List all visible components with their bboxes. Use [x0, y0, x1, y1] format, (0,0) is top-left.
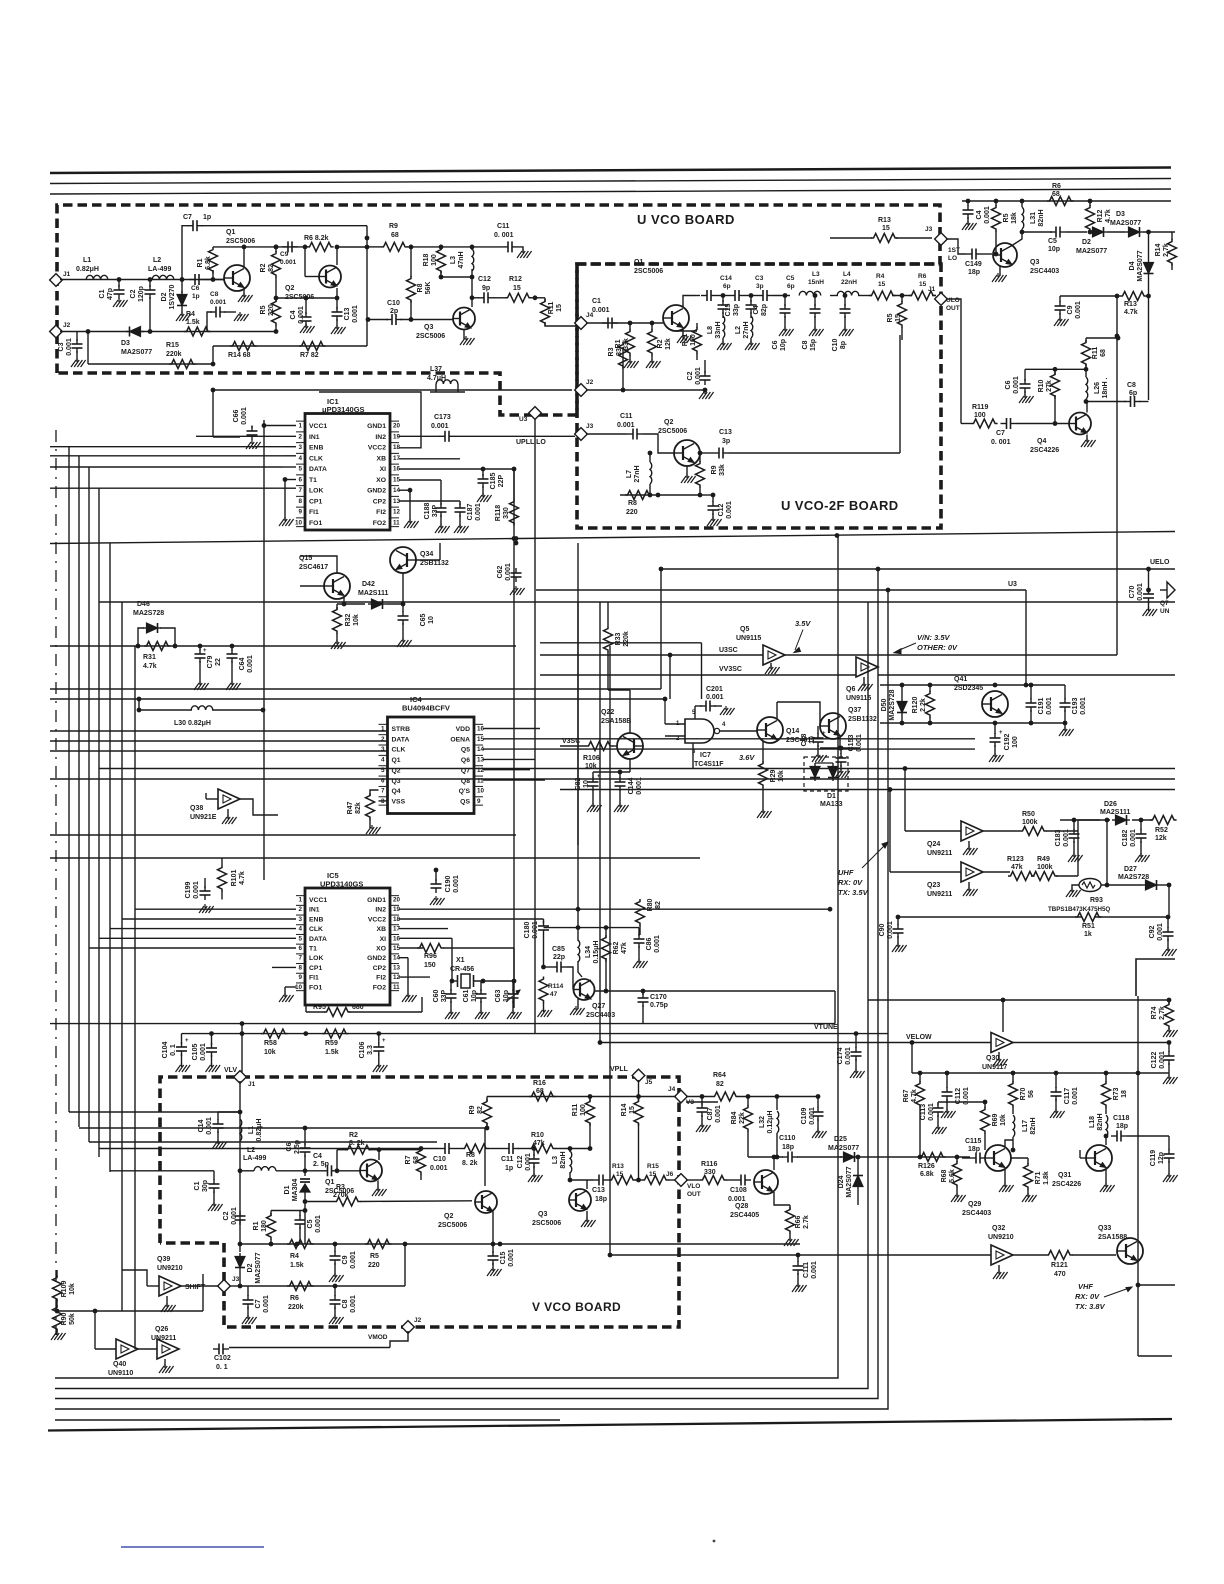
wire IC1 pin2: [196, 435, 296, 437]
wire R72 to Q31: [1079, 1150, 1081, 1158]
wire V top row: [487, 1096, 676, 1098]
capacitor C104 0.1: [181, 1034, 183, 1044]
svg-text:FI1: FI1: [309, 509, 319, 516]
svg-text:2SC4403: 2SC4403: [586, 1012, 615, 1019]
svg-text:0.001: 0.001: [532, 921, 539, 939]
svg-text:STRB: STRB: [392, 726, 411, 733]
NAND gate IC7 TC4S11F: [685, 719, 714, 743]
svg-text:R16: R16: [533, 1080, 546, 1087]
svg-text:82: 82: [716, 1081, 724, 1088]
wire bus row L: [50, 778, 1175, 780]
wire bottom border line: [48, 1419, 1172, 1431]
svg-text:0. 1: 0. 1: [170, 1044, 177, 1056]
svg-text:9: 9: [298, 509, 302, 516]
svg-text:82nH: 82nH: [1038, 209, 1045, 226]
buffer Q24 UN9211: [961, 821, 983, 841]
capacitor C9 0.001 right: [1060, 295, 1117, 297]
diode D1 MA304 V: [304, 1171, 306, 1176]
connector J2 left: [50, 325, 63, 338]
wire bus vert 2: [78, 456, 80, 1127]
svg-text:R101: R101: [231, 870, 238, 887]
svg-text:47nH: 47nH: [458, 251, 465, 268]
svg-text:47k: 47k: [621, 942, 628, 954]
svg-text:100: 100: [580, 1104, 587, 1116]
ground Q27: [577, 999, 579, 1009]
resistor R8 8.2k V: [462, 1144, 489, 1153]
svg-text:7: 7: [298, 955, 302, 962]
svg-text:R2: R2: [260, 263, 267, 272]
svg-text:C108: C108: [730, 1187, 747, 1194]
svg-text:15: 15: [882, 225, 890, 232]
svg-text:Q5: Q5: [740, 626, 749, 633]
svg-text:LOK: LOK: [309, 955, 323, 962]
svg-text:10p: 10p: [503, 990, 510, 1002]
svg-text:XI: XI: [380, 936, 387, 943]
wire mid vert x600: [599, 602, 601, 1043]
svg-text:C9: C9: [280, 251, 289, 258]
svg-text:Q3: Q3: [392, 778, 401, 785]
transistor Q3 2SC5006: [453, 308, 475, 330]
svg-text:56: 56: [1028, 1090, 1035, 1098]
svg-text:82nH: 82nH: [1097, 1113, 1104, 1130]
svg-text:GND2: GND2: [367, 488, 386, 495]
capacitor C3 3p: [729, 295, 735, 297]
connector U3 diamond: [529, 407, 542, 420]
capacitor C5 10p: [1050, 231, 1056, 233]
svg-text:10p: 10p: [471, 990, 478, 1002]
svg-text:0.001: 0.001: [350, 1251, 357, 1269]
capacitor C12 0.001 2F: [712, 495, 714, 502]
wire bus vert 4: [98, 488, 100, 1157]
svg-text:12p: 12p: [1158, 1152, 1165, 1164]
svg-text:Q39: Q39: [157, 1256, 170, 1263]
svg-text:1p: 1p: [505, 1165, 513, 1172]
capacitor C106 3.3: [378, 1034, 380, 1044]
transistor Q31 2SC4226: [1086, 1145, 1112, 1171]
wire feedback down: [366, 226, 368, 346]
capacitor C112 0.001: [946, 1073, 948, 1088]
svg-text:0.001: 0.001: [726, 501, 733, 519]
svg-text:33: 33: [616, 348, 623, 356]
svg-text:C3: C3: [58, 342, 65, 351]
svg-text:3: 3: [298, 444, 302, 451]
svg-text:4.7k: 4.7k: [1124, 309, 1138, 316]
svg-text:R10: R10: [531, 1132, 544, 1139]
svg-text:C193: C193: [1072, 698, 1079, 715]
svg-text:1k: 1k: [1084, 931, 1092, 938]
svg-text:UELO: UELO: [1150, 559, 1170, 566]
svg-text:15: 15: [513, 285, 521, 292]
svg-text:0.001: 0.001: [66, 338, 73, 356]
svg-text:22: 22: [215, 658, 222, 666]
svg-text:J2: J2: [414, 1317, 422, 1324]
wire Q39 output: [181, 1285, 219, 1287]
svg-text:0.12μH: 0.12μH: [767, 1111, 774, 1134]
svg-text:10p: 10p: [1048, 246, 1060, 253]
resistor R6 220k V: [287, 1282, 314, 1291]
svg-text:82p: 82p: [761, 304, 768, 316]
svg-text:C85: C85: [552, 946, 565, 953]
svg-text:XB: XB: [377, 455, 387, 462]
svg-text:C14: C14: [720, 275, 732, 282]
svg-text:Q29: Q29: [968, 1201, 981, 1208]
wire Q23 output: [983, 871, 1010, 873]
svg-text:0.001: 0.001: [1157, 923, 1164, 941]
wire Q38 input: [206, 798, 218, 800]
svg-text:10p: 10p: [780, 339, 787, 351]
svg-text:R3: R3: [336, 1184, 345, 1191]
wire bus row F (R31 row): [50, 645, 516, 647]
svg-text:R70: R70: [1020, 1087, 1027, 1100]
svg-text:100: 100: [431, 254, 438, 266]
wire bus row E: [50, 532, 1175, 544]
svg-text:C191: C191: [1038, 698, 1045, 715]
svg-text:L2: L2: [153, 257, 161, 264]
svg-text:27nH: 27nH: [743, 321, 750, 338]
wire IC5 pin19 IN2: [399, 908, 830, 910]
ground Q29: [1004, 1169, 1006, 1186]
cut buffer Q7x right edge: [1160, 589, 1167, 591]
capacitor C109 0.001: [817, 1097, 819, 1109]
wire to Q2 base: [643, 434, 674, 453]
svg-text:0.001: 0.001: [350, 1295, 357, 1313]
svg-text:J4: J4: [668, 1086, 676, 1093]
diode D3 MA2S077: [1129, 227, 1140, 237]
svg-text:15: 15: [616, 1171, 624, 1178]
svg-text:0.001: 0.001: [206, 1117, 213, 1135]
inductor L31 82nH: [1021, 201, 1023, 207]
wire Q23 input: [890, 871, 961, 873]
svg-text:0.001: 0.001: [1130, 829, 1137, 847]
blue underline bottom: [121, 1546, 264, 1548]
resistor R7 68 V: [417, 1148, 426, 1175]
svg-text:C11: C11: [501, 1156, 514, 1163]
svg-text:VSS: VSS: [392, 798, 406, 805]
svg-text:0.001: 0.001: [1080, 697, 1087, 715]
svg-text:C119: C119: [1150, 1150, 1157, 1166]
svg-text:15p: 15p: [810, 339, 817, 351]
wire IC5 pin15 XO: [399, 947, 423, 949]
svg-text:L37: L37: [430, 366, 442, 373]
inductor L18 82nH: [1106, 1115, 1108, 1137]
svg-text:3: 3: [298, 916, 302, 923]
wire Q27 out row: [594, 990, 835, 992]
svg-text:100: 100: [1012, 736, 1019, 748]
svg-text:R74: R74: [1151, 1006, 1158, 1019]
svg-text:L8: L8: [707, 326, 714, 334]
wire Q40-Q26: [138, 1348, 157, 1350]
svg-text:1p: 1p: [203, 214, 211, 221]
svg-text:UN9210: UN9210: [157, 1265, 183, 1272]
svg-text:D27: D27: [1124, 866, 1137, 873]
wire x1169 vert: [1168, 885, 1170, 917]
svg-text:220: 220: [626, 509, 638, 516]
wire IC1 top loop: [319, 392, 421, 448]
capacitor C117 0.001: [1055, 1073, 1057, 1088]
svg-text:0.001: 0.001: [1072, 1087, 1079, 1105]
resistor R5 18k: [995, 201, 997, 206]
capacitor C6 10p 2F: [784, 296, 786, 307]
svg-text:220k: 220k: [623, 631, 630, 647]
svg-text:4: 4: [722, 722, 726, 728]
wire U3 row: [536, 589, 1026, 591]
resistor R14 2.7k right: [1171, 232, 1173, 240]
capacitor C4 0.001: [305, 298, 307, 314]
svg-text:0.001: 0.001: [315, 1215, 322, 1233]
capacitor C182 0.001: [1140, 820, 1142, 830]
svg-text:R2: R2: [349, 1132, 358, 1139]
capacitor C201 0.001: [694, 706, 696, 719]
svg-text:μPD3140GS: μPD3140GS: [322, 405, 365, 414]
resistor R10 47k V: [529, 1144, 556, 1153]
svg-text:0.001: 0.001: [352, 305, 359, 323]
svg-text:R4: R4: [290, 1253, 299, 1260]
svg-text:R109: R109: [61, 1281, 68, 1298]
svg-text:J5: J5: [645, 1079, 653, 1086]
svg-text:C201: C201: [706, 686, 723, 693]
svg-text:+: +: [597, 774, 601, 780]
svg-text:C5: C5: [307, 1219, 314, 1228]
wire row 1033.6: [182, 1033, 889, 1035]
capacitor C190 0.001: [435, 879, 437, 884]
svg-text:L1: L1: [83, 257, 91, 264]
svg-text:10: 10: [428, 616, 435, 624]
wire Q14 collector: [776, 702, 778, 719]
svg-text:15nH: 15nH: [808, 279, 824, 286]
svg-text:5.6k: 5.6k: [949, 1169, 956, 1183]
svg-text:R5: R5: [1003, 213, 1010, 222]
capacitor C11 0.001 2F: [627, 433, 633, 435]
svg-text:0.001: 0.001: [811, 1261, 818, 1279]
wire bus row I (IC4 STRB): [50, 730, 387, 732]
wire IC5 pin18: [399, 918, 544, 920]
transistor Q27 2SC4403: [574, 979, 595, 1000]
svg-text:R95: R95: [313, 1004, 326, 1011]
wire long row 602: [99, 601, 1175, 603]
wire D27 row: [1101, 884, 1142, 886]
svg-text:D3: D3: [1116, 211, 1125, 218]
wire wrap bus 2: [55, 602, 868, 1389]
svg-text:C144: C144: [628, 778, 635, 795]
svg-text:R5: R5: [370, 1253, 379, 1260]
capacitor C113 0.001: [946, 1101, 948, 1103]
connector J3 2F: [575, 428, 588, 441]
inductor L1: [86, 275, 108, 279]
wire IC5 pin16 XI: [399, 937, 452, 939]
svg-text:18p: 18p: [968, 269, 980, 276]
svg-text:FO2: FO2: [373, 984, 386, 991]
svg-text:Q27: Q27: [592, 1003, 605, 1010]
svg-text:R9: R9: [711, 465, 718, 474]
svg-text:VV3SC: VV3SC: [719, 666, 742, 673]
svg-text:0.001: 0.001: [280, 259, 297, 266]
capacitor C70 0.001: [1148, 569, 1150, 590]
svg-text:UN9210: UN9210: [988, 1234, 1014, 1241]
transistor Q41 2SD2345: [982, 691, 1008, 717]
svg-text:J3: J3: [925, 226, 933, 233]
wire Q30 rail: [912, 1072, 1169, 1074]
capacitor C12 9p: [472, 297, 479, 299]
transistor Q3 V 2SC5006: [569, 1189, 591, 1211]
svg-text:82nH: 82nH: [560, 1151, 567, 1168]
svg-text:Q1: Q1: [634, 259, 643, 266]
svg-text:C185: C185: [490, 473, 497, 490]
svg-text:IC7: IC7: [700, 752, 711, 759]
svg-text:4: 4: [298, 455, 302, 462]
svg-text:R68: R68: [941, 1169, 948, 1182]
svg-text:L2: L2: [247, 1147, 255, 1154]
wire R11 top: [1086, 337, 1118, 339]
svg-text:Q3: Q3: [538, 1211, 547, 1218]
svg-text:R14: R14: [621, 1103, 628, 1116]
svg-text:Q4: Q4: [392, 788, 401, 795]
resistor R95 680: [306, 1011, 325, 1013]
svg-text:C8: C8: [802, 340, 809, 349]
ground Q2 2F emitter: [686, 466, 688, 477]
capacitor C4 0.001 right: [967, 201, 969, 206]
svg-text:UN: UN: [1160, 608, 1170, 615]
svg-text:R116: R116: [701, 1161, 717, 1168]
svg-text:2SC5006: 2SC5006: [438, 1222, 467, 1229]
svg-text:2p: 2p: [390, 308, 398, 315]
wire Q22 collector: [629, 759, 631, 772]
svg-text:3: 3: [381, 746, 385, 753]
wire bus row H: [50, 698, 665, 700]
svg-text:IN1: IN1: [309, 907, 320, 914]
svg-text:MA2S728: MA2S728: [1118, 874, 1149, 881]
svg-text:4.7μH: 4.7μH: [427, 375, 446, 382]
svg-text:J2: J2: [586, 379, 594, 386]
capacitor C199 0.001: [204, 886, 206, 891]
svg-text:Q1: Q1: [392, 757, 401, 764]
svg-text:R71: R71: [1035, 1171, 1042, 1184]
wire SHIFT row: [228, 1285, 240, 1287]
diode D1 MA133 pair: [804, 757, 848, 791]
wire V out row: [570, 1179, 593, 1181]
wire Q1 collector row: [213, 246, 306, 248]
svg-text:XI: XI: [380, 466, 387, 473]
wire J4 row: [686, 1101, 718, 1103]
svg-text:L3: L3: [812, 271, 820, 278]
svg-text:C182: C182: [1122, 830, 1129, 847]
svg-text:D25: D25: [834, 1136, 847, 1143]
svg-text:C199: C199: [185, 882, 192, 899]
svg-text:C12: C12: [517, 1155, 524, 1168]
box cut right edge: [1136, 959, 1175, 996]
svg-text:2SC5006: 2SC5006: [634, 268, 663, 275]
svg-text:D26: D26: [1104, 801, 1117, 808]
capacitor C192 100: [994, 723, 996, 734]
svg-text:IN2: IN2: [375, 434, 386, 441]
svg-text:1.5k: 1.5k: [186, 319, 200, 326]
svg-text:82k: 82k: [355, 802, 362, 814]
capacitor C122 0.001: [1168, 1043, 1170, 1053]
svg-text:MA2S077: MA2S077: [1137, 250, 1144, 281]
connector J4 2F: [575, 317, 588, 330]
wire V bottom rail: [240, 1243, 800, 1245]
ground C193: [1064, 723, 1066, 730]
diode D4 MA2S077: [1148, 232, 1150, 259]
svg-text:68: 68: [413, 1156, 420, 1164]
transistor Q29 2SC4403: [985, 1145, 1011, 1171]
svg-text:R31: R31: [143, 654, 156, 661]
ground Q1 emitter: [243, 288, 245, 296]
svg-text:J6: J6: [666, 1171, 674, 1178]
svg-text:D1: D1: [284, 1185, 291, 1194]
svg-text:C183: C183: [1055, 830, 1062, 847]
svg-text:Q41: Q41: [954, 676, 967, 683]
wire Q1 2F collector: [683, 296, 695, 308]
transistor Q4 2SC4226: [1069, 413, 1091, 435]
svg-text:1SV270: 1SV270: [169, 284, 176, 309]
svg-text:20: 20: [393, 897, 401, 904]
svg-text:XB: XB: [377, 926, 387, 933]
svg-text:J2: J2: [63, 322, 71, 329]
svg-text:Q1: Q1: [226, 229, 235, 236]
svg-text:C7: C7: [255, 1299, 262, 1308]
svg-text:TC4S11F: TC4S11F: [694, 761, 724, 768]
wire Q34 collector: [416, 559, 440, 561]
svg-text:VLV: VLV: [224, 1067, 237, 1074]
svg-text:10: 10: [295, 519, 303, 526]
svg-text:0.001: 0.001: [453, 875, 460, 893]
svg-text:C70: C70: [1129, 585, 1136, 598]
transistor Q2 V 2SC5006: [475, 1191, 497, 1213]
capacitor C87 0.001: [701, 1097, 703, 1106]
svg-text:FI2: FI2: [376, 509, 386, 516]
capacitor C66 0.001: [251, 426, 253, 429]
ground Q6: [863, 677, 865, 685]
svg-text:0.001: 0.001: [505, 563, 512, 581]
inductor L17 82nH: [1013, 1115, 1015, 1137]
svg-text:220: 220: [368, 1262, 380, 1269]
capacitor C185 22p: [482, 474, 484, 479]
resistor R71 1.8k: [1027, 1158, 1029, 1164]
wire J2 row: [213, 389, 572, 391]
svg-text:1.5k: 1.5k: [325, 1049, 339, 1056]
svg-text:C7: C7: [996, 430, 1005, 437]
svg-text:0.001: 0.001: [525, 1153, 532, 1171]
wire Q30 output: [1013, 1042, 1169, 1044]
svg-text:47: 47: [550, 991, 558, 998]
svg-text:+: +: [185, 1038, 189, 1044]
svg-text:0.001: 0.001: [928, 1103, 935, 1121]
wire Q1 collector: [243, 247, 245, 268]
resistor R59 1.5k: [322, 1029, 349, 1038]
capacitor C11 1p V: [503, 1148, 509, 1150]
svg-text:5: 5: [298, 466, 302, 473]
svg-text:0. 001: 0. 001: [991, 439, 1011, 446]
svg-text:7: 7: [381, 788, 385, 795]
capacitor C62 0.001: [515, 568, 517, 573]
resistor R106 10k: [586, 742, 613, 751]
svg-text:330: 330: [704, 1169, 716, 1176]
svg-text:C104: C104: [162, 1042, 169, 1059]
inductor L7 27nH: [649, 453, 651, 462]
wire R18-L3 bottom: [441, 276, 472, 278]
wire mid vert x661: [660, 569, 662, 689]
capacitor C153 0.001: [820, 747, 860, 749]
svg-text:VELOW: VELOW: [906, 1034, 932, 1041]
svg-text:IN1: IN1: [309, 434, 320, 441]
wire stair row 2: [79, 1127, 305, 1129]
connector J2 2F: [575, 384, 588, 397]
svg-text:Q32: Q32: [992, 1225, 1005, 1232]
svg-text:R121: R121: [1051, 1262, 1068, 1269]
resistor R96 150: [417, 944, 444, 953]
svg-text:C115: C115: [965, 1138, 981, 1145]
wire R13 row right: [1117, 295, 1120, 297]
